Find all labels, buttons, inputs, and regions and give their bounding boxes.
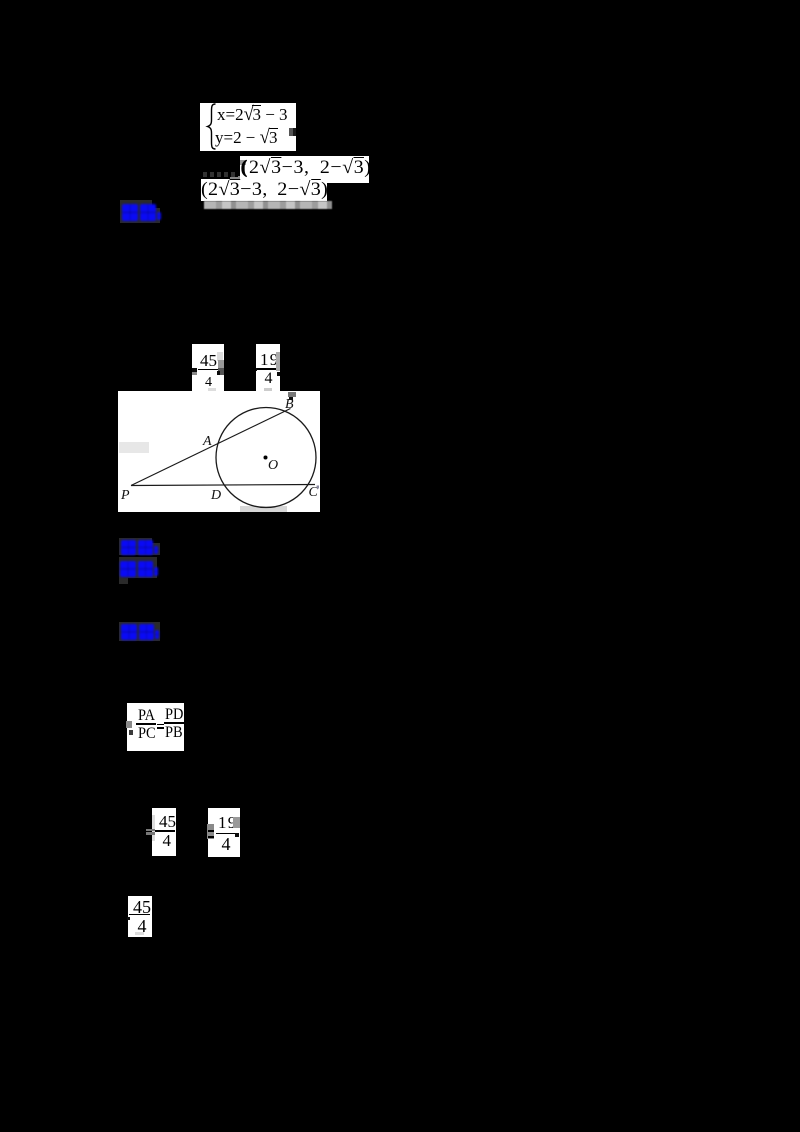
gray smear strip under row 2	[204, 201, 332, 209]
fraction 19/4 (above figure, right)	[256, 344, 280, 392]
svg-text:A: A	[202, 434, 212, 449]
circle O	[216, 408, 316, 508]
=45/4 (middle)	[152, 808, 176, 856]
tiny mark right of C	[317, 486, 319, 489]
blue label 2 (考点:)	[119, 538, 152, 555]
blue label 4 (解答:)	[119, 622, 160, 641]
faint gray dashes left of row 1	[203, 172, 238, 177]
center dot	[264, 456, 268, 460]
proportion PA/PC = PD/PB	[127, 703, 184, 751]
dark gray artifact square above figure right	[288, 392, 296, 397]
coordinate pair row 1	[240, 156, 369, 183]
artifacts around 19/4	[276, 352, 279, 371]
blue label 1 (点评:)	[120, 200, 152, 209]
gray marks left of proportion	[126, 721, 132, 728]
equals left of 45/4	[146, 829, 155, 831]
=19/4 (middle)	[208, 808, 240, 857]
gray artifact square right of system	[289, 128, 296, 136]
equation y=2−√3	[215, 128, 278, 148]
faint smudge left	[119, 442, 149, 453]
equation x=2√3−3	[217, 105, 288, 125]
svg-text:O: O	[268, 458, 278, 473]
math patch: system of equations	[200, 103, 296, 151]
artifacts around 45/4	[192, 368, 197, 373]
faint smudge bottom	[240, 506, 287, 513]
45/4 (last)	[128, 896, 152, 937]
coordinate pair row 2	[201, 179, 327, 201]
svg-text:D: D	[210, 488, 221, 503]
secant P-A-B	[131, 409, 291, 486]
secant P-D-C	[131, 485, 315, 486]
blue label 3 (分析:)	[119, 557, 157, 578]
svg-text:P: P	[120, 488, 130, 503]
fraction 45/4 (above figure, left)	[192, 344, 224, 392]
system brace	[204, 103, 218, 150]
geometry figure: circle O with secants PAB and PDC	[118, 391, 320, 512]
